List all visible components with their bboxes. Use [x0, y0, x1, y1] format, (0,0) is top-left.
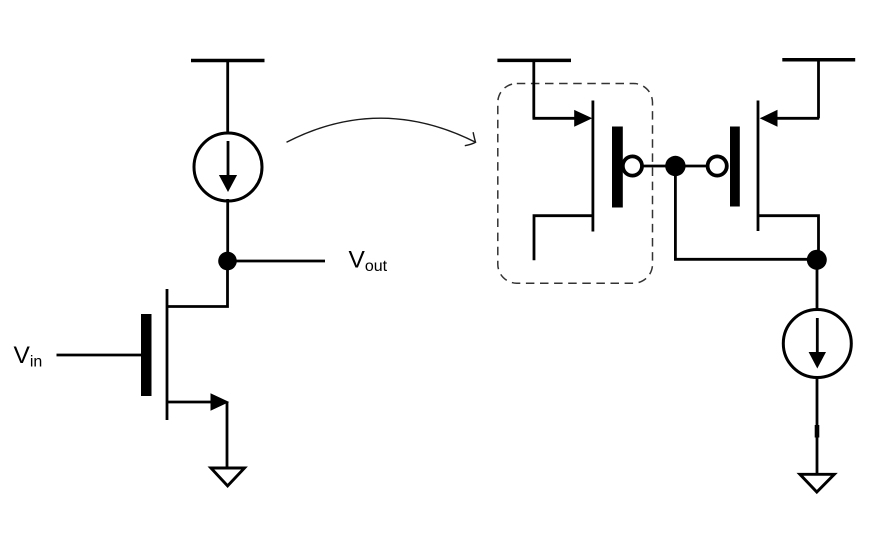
svg-text:Vout: Vout	[349, 247, 388, 276]
wire gate node to M3 bubble	[675, 165, 708, 168]
wire tail node to current source I2	[816, 260, 819, 311]
wire current source I2 to ground	[816, 376, 819, 475]
wire gate node down and across to tail node	[675, 166, 816, 259]
wire current source I1 to output node	[226, 199, 229, 261]
transistor M2 gate bubble	[623, 156, 642, 175]
svg-text:Vin: Vin	[14, 342, 43, 371]
power rail VDD (left stage)	[191, 59, 265, 63]
transistor M2 source wire with arrow	[533, 110, 593, 127]
node tail junction dot	[807, 250, 827, 270]
ground symbol (left stage)	[211, 468, 245, 486]
node Vout junction dot	[218, 252, 237, 271]
transistor M2 channel line	[592, 101, 595, 232]
transistor M3 gate bubble	[708, 156, 727, 175]
wire Vin to M1 gate	[57, 354, 142, 357]
power rail VDD (right transistor M3)	[782, 58, 855, 62]
transistor M2 drain wire	[534, 216, 593, 261]
transistor M3 gate bar	[730, 127, 740, 207]
wire M2 bubble to gate node	[642, 165, 675, 168]
wire overlap segment on I2-ground wire	[815, 425, 820, 438]
annotation curved arrow from left stage to replacement box	[287, 118, 476, 146]
node common gate junction dot	[665, 156, 685, 176]
power rail VDD (box transistor M2)	[497, 59, 571, 63]
current source I1	[194, 133, 262, 201]
dashed replacement box around M2	[498, 84, 653, 284]
transistor M1 source wire with arrow	[167, 393, 229, 410]
current source I2 arrow	[809, 318, 826, 369]
wire output node to Vout label	[228, 260, 325, 263]
transistor M3 channel line	[757, 101, 760, 232]
transistor M1 gate bar	[141, 314, 152, 396]
wire M1 source to ground	[226, 402, 229, 468]
transistor M3 source wire with arrow	[760, 110, 820, 127]
wire output node down to M1 drain	[167, 261, 228, 307]
wire VDD rail to current source I1	[226, 61, 229, 136]
transistor M3 drain wire	[758, 216, 819, 260]
transistor M2 gate bar	[612, 127, 623, 208]
current source I2	[783, 310, 851, 378]
ground symbol (right stage)	[800, 474, 834, 492]
wire VDD rail to M2 source	[532, 60, 535, 118]
wire M3 source to VDD rail	[817, 60, 820, 118]
transistor M1 (NMOS) channel line	[166, 289, 169, 420]
current source I1 arrow	[219, 141, 237, 192]
